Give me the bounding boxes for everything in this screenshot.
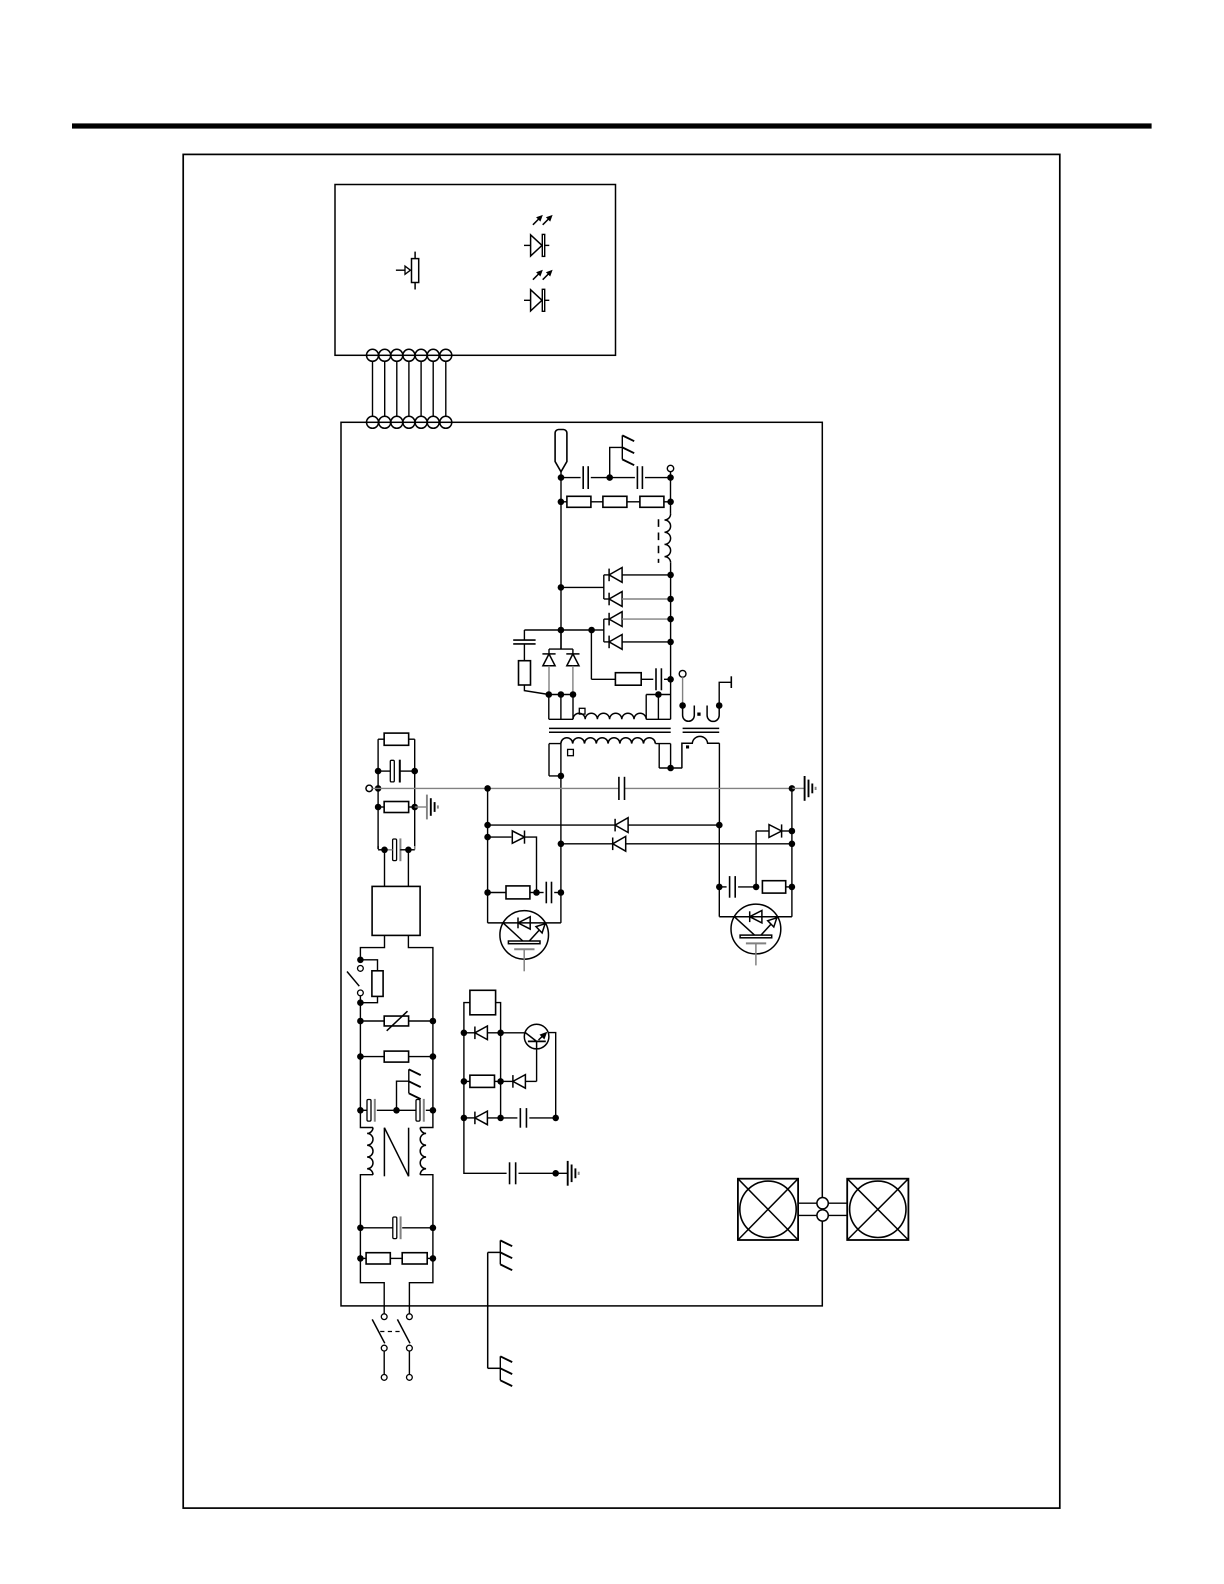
choke core lines — [383, 1128, 385, 1177]
junction T1 pri c — [570, 691, 577, 698]
wire D3 leads — [604, 618, 609, 620]
wire to choke left — [360, 1110, 373, 1127]
wire R4 leads — [360, 1056, 384, 1058]
breaker mechanical link (dashed) — [380, 1331, 401, 1333]
transformer T1 primary winding — [573, 713, 646, 719]
junction rail 892 — [484, 889, 491, 896]
wire cap row — [360, 1109, 367, 1111]
junction T1 sec right — [667, 765, 674, 772]
junction main line / left rail — [375, 785, 382, 792]
wire T2 right lead — [719, 682, 731, 705]
resistor R6 (bottom right) — [402, 1253, 427, 1264]
capacitor C6 — [582, 466, 584, 489]
wire left rail to MOV — [359, 996, 361, 1021]
capacitor C14 — [509, 1162, 511, 1184]
junction T1 sec left — [558, 773, 565, 780]
chassis ground (upper) — [499, 1240, 501, 1264]
junction main/earth — [789, 785, 796, 792]
junction R row right — [430, 1255, 437, 1262]
thermal switch contact top — [358, 966, 364, 972]
choke winding left — [367, 1128, 373, 1175]
terminal line sense — [679, 670, 686, 677]
chassis ground (lower) — [499, 1356, 501, 1380]
junction R2 left — [375, 804, 382, 811]
wire T2 sec down — [718, 743, 720, 825]
varistor MOV — [384, 1016, 408, 1026]
resistor R7 — [567, 496, 591, 507]
wire gate RC row 2 — [719, 886, 726, 888]
junction C2 left — [381, 847, 388, 854]
wire tie B down — [590, 630, 592, 679]
junction D10 right — [789, 828, 796, 835]
chassis ground (mid) — [408, 1069, 410, 1093]
resistor R14 (driver top) — [470, 990, 496, 1015]
wire rail 719 — [718, 825, 720, 917]
wire chassis bond — [487, 1252, 489, 1368]
polarity square T1 primary — [579, 708, 585, 714]
junction tie A — [558, 584, 565, 591]
diode D1 — [608, 569, 610, 582]
IGBT Q2 — [731, 904, 781, 954]
junction D1 right — [667, 572, 674, 579]
junction R12 right — [533, 889, 540, 896]
fan motor 2 — [847, 1179, 908, 1240]
junction C11 right — [558, 889, 565, 896]
choke winding right — [420, 1128, 426, 1175]
wire bracket feed — [560, 630, 562, 649]
wire 3R row — [561, 501, 567, 503]
capacitor C11 — [545, 882, 547, 904]
resistor R3 (bleeder) — [372, 971, 383, 997]
wire R14 left lead — [464, 1003, 470, 1033]
junction R4 right — [430, 1053, 437, 1060]
junction drv row3 mid — [497, 1115, 504, 1122]
control PC board box — [335, 185, 616, 356]
fan motor 1 — [738, 1179, 798, 1240]
terminal line output — [366, 785, 372, 791]
junction R2 right — [411, 804, 418, 811]
capacitor C4 — [416, 1100, 420, 1122]
wire T2 left lead — [682, 677, 684, 705]
wire C1 leads — [378, 770, 390, 772]
junction bus top — [667, 474, 674, 481]
junction drv row2 mid — [497, 1078, 504, 1085]
junction T1 pri b — [558, 691, 565, 698]
junction rail 825 — [484, 822, 491, 829]
wire D1-D2 tie — [603, 575, 605, 599]
wire gate rail left — [487, 788, 489, 923]
junction T1 pri a — [546, 691, 553, 698]
junction tie B — [588, 627, 595, 634]
wire D3-D4 tie — [603, 619, 605, 642]
diode D8 — [524, 831, 526, 844]
resistor R15 — [470, 1075, 495, 1087]
transformer T1 secondary winding — [561, 738, 655, 744]
junction T2 pri left — [679, 702, 686, 709]
junction rail 837 — [484, 834, 491, 841]
polarity mark T2 primary — [697, 713, 700, 716]
ribbon connector wires — [372, 361, 374, 416]
earth ground (driver) — [567, 1161, 569, 1186]
wire D6 lead — [572, 666, 574, 695]
diode D13 — [474, 1112, 476, 1125]
wire gate RC row — [488, 892, 506, 894]
junction C5 right — [430, 1225, 437, 1232]
junction R3 bottom — [357, 999, 364, 1006]
wire line 825 — [488, 824, 615, 826]
chassis ground (mid) link — [397, 1081, 409, 1110]
transformer T2 primary — [683, 706, 695, 722]
wire T1 sec right bracket — [655, 744, 682, 768]
capacitor C12 — [729, 876, 731, 898]
wire to breaker pole 1 — [360, 1258, 384, 1313]
junction T2 pri right — [716, 702, 723, 709]
LED 2 (control box) — [524, 299, 531, 301]
fan connector pin 1 — [817, 1198, 828, 1209]
wire snubber top — [523, 630, 525, 640]
capacitor C9 — [655, 668, 657, 690]
inductor L1 — [665, 514, 671, 563]
IGBT Q1 — [500, 911, 549, 960]
wire drv tie — [463, 1033, 465, 1118]
wire R2 to earth — [415, 806, 427, 808]
diode D12 — [512, 1075, 514, 1088]
junction D3 right — [667, 616, 674, 623]
junction C1 right — [411, 768, 418, 775]
capacitor C3 — [367, 1100, 371, 1122]
junction cap row left — [357, 1107, 364, 1114]
wire switch branch — [360, 960, 377, 971]
wire sensor to node — [560, 472, 562, 478]
wire R2 leads — [378, 806, 384, 808]
wire igbt2 chord — [719, 916, 792, 918]
breaker blade 1 — [372, 1319, 385, 1343]
junction D4 right — [667, 639, 674, 646]
junction cap row right — [430, 1107, 437, 1114]
wire main line — [372, 787, 619, 789]
wire right bus upper — [670, 478, 672, 514]
wire diode pair top bar — [549, 648, 573, 650]
outer border frame — [183, 154, 1060, 1508]
wire choke bottom left — [360, 1175, 373, 1228]
breaker contact 2a — [407, 1314, 413, 1320]
wire to breaker pole 2 — [409, 1258, 433, 1313]
wire snubber bottom — [524, 685, 548, 695]
resistor R12 — [506, 886, 530, 899]
wire MOV leads — [360, 1020, 384, 1022]
wire to choke right — [420, 1110, 433, 1127]
polarity mark T2 secondary — [686, 745, 689, 748]
switch blade — [347, 972, 359, 987]
diode D4 — [608, 636, 610, 649]
junction rail719 886 — [716, 884, 723, 891]
wire C2 to module — [384, 850, 386, 887]
resistor R5 (bottom left) — [366, 1253, 390, 1264]
junction C12 right — [753, 884, 760, 891]
wire D4 leads — [604, 641, 609, 643]
capacitor C2 (input) — [393, 839, 397, 861]
wire R1 leads — [378, 738, 384, 740]
diode D2 — [608, 593, 610, 606]
wire chassis link top — [610, 447, 623, 477]
breaker contact 2b — [407, 1345, 413, 1351]
terminal line input — [366, 785, 372, 791]
snubber resistor R10 — [519, 661, 531, 685]
power board outline — [341, 422, 822, 1306]
wire snubber mid — [523, 644, 525, 661]
breaker terminal 1 — [381, 1375, 387, 1381]
wire D10 leads — [756, 830, 769, 832]
junction line843 left — [558, 841, 565, 848]
wire terminal stub — [670, 472, 672, 478]
diode D6 (up) — [566, 653, 579, 655]
potentiometer R (control box) — [412, 259, 419, 283]
resistor R13 — [762, 881, 785, 893]
diode D5 (up) — [542, 653, 555, 655]
capacitor C13 — [519, 1108, 521, 1128]
thermal sensor — [555, 430, 567, 472]
connector receptacle circles (bottom row) — [367, 416, 379, 428]
wire drv row2 — [464, 1080, 470, 1082]
wire line 837 — [488, 836, 512, 838]
wire drv row3 — [464, 1117, 475, 1119]
junction drv row1 left — [461, 1030, 468, 1037]
junction main/igbt rail — [484, 785, 491, 792]
diode D11 — [474, 1027, 476, 1040]
junction line825 right — [716, 822, 723, 829]
junction C1 left — [375, 768, 382, 775]
resistor R8 — [603, 496, 627, 507]
chassis ground (top) — [621, 435, 623, 459]
resistor R11 — [615, 673, 641, 686]
wire D2 leads — [604, 598, 609, 600]
wire rail 791 — [791, 788, 793, 916]
junction drv row3 left — [461, 1115, 468, 1122]
earth ground (input filter) — [426, 795, 428, 820]
thermal switch contact bottom — [358, 990, 364, 996]
potentiometer wiper arrow — [396, 269, 405, 271]
wire T1 bracket left — [549, 695, 573, 720]
diode D3 — [608, 613, 610, 626]
junction C2 right — [405, 847, 412, 854]
wire C5 row — [360, 1227, 392, 1229]
page top rule — [72, 123, 1152, 128]
resistor R2 (input) — [384, 802, 409, 813]
junction C5 left — [357, 1225, 364, 1232]
wire fan links — [798, 1202, 817, 1204]
wire secondary bus — [560, 776, 562, 893]
wire RC row — [591, 678, 615, 680]
breaker contact 1b — [381, 1345, 387, 1351]
junction switch top — [357, 957, 364, 964]
wire rails MOV to R4 — [359, 1021, 361, 1057]
snubber capacitor C8 — [513, 639, 535, 641]
junction RC right — [667, 676, 674, 683]
transformer T2 core — [683, 727, 720, 729]
junction bus 630 — [558, 627, 565, 634]
polarity square T1 secondary — [568, 749, 574, 755]
wire node row 630 — [524, 629, 591, 631]
resistor R4 — [384, 1051, 408, 1062]
module block (rectifier) — [372, 886, 420, 935]
terminal line top — [667, 465, 673, 471]
junction R13 right — [789, 884, 796, 891]
junction drv row1 right — [497, 1030, 504, 1037]
junction line843 right — [789, 841, 796, 848]
choke core diagonal — [384, 1128, 408, 1177]
wire R5-R6 row — [360, 1257, 366, 1259]
wire choke bottom right — [420, 1175, 433, 1228]
wire left bus upper — [560, 478, 562, 649]
breaker blade 2 — [397, 1319, 410, 1343]
breaker contact 1a — [381, 1314, 387, 1320]
wire terminal row — [561, 477, 581, 479]
resistor R9 — [640, 496, 664, 507]
wire module right lead — [408, 935, 433, 1021]
transistor Q3 — [524, 1024, 549, 1049]
capacitor C5 (bottom) — [393, 1217, 397, 1239]
wire rails R4 to caps — [359, 1057, 361, 1111]
wire R3 bottom lead — [360, 996, 377, 1002]
junction drv row3 right — [552, 1115, 559, 1122]
wire T1 bracket right — [646, 695, 670, 720]
junction sensor node — [558, 474, 565, 481]
wire main earth stub — [792, 787, 805, 789]
wire drv bottom — [464, 1118, 568, 1173]
wire T1 sec left bracket — [549, 744, 561, 776]
wire right bus mid — [670, 563, 672, 695]
wire stub 756 — [755, 831, 757, 887]
wire D1 leads — [604, 574, 609, 576]
wire module left lead — [360, 935, 384, 956]
junction MOV left — [357, 1018, 364, 1025]
wire breaker tails — [383, 1351, 385, 1375]
earth ground (main line) — [804, 776, 806, 801]
wire line 843 — [561, 843, 613, 845]
junction 3R row left — [558, 499, 565, 506]
diode D7 — [614, 819, 616, 832]
junction chassis tap — [606, 474, 613, 481]
capacitor C10 (main line) — [618, 777, 620, 800]
wire drv row1 — [464, 1032, 475, 1034]
junction 3R row right — [667, 499, 674, 506]
capacitor C1 (input) — [390, 760, 394, 782]
junction cap row mid — [393, 1107, 400, 1114]
fan connector pin 2 — [817, 1210, 828, 1221]
wire C2 row — [377, 846, 379, 849]
wire Q3 collector — [536, 1049, 538, 1082]
junction T1 pri d — [655, 691, 662, 698]
transformer T1 core — [549, 727, 671, 729]
junction drv bottom — [552, 1170, 559, 1177]
diode D9 — [612, 838, 614, 851]
capacitor C7 — [636, 466, 638, 489]
wire Q3 right lead — [549, 1033, 556, 1118]
junction R row left — [357, 1255, 364, 1262]
junction drv row2 left — [461, 1078, 468, 1085]
junction MOV right — [430, 1018, 437, 1025]
wire D5 lead — [548, 666, 550, 695]
resistor R1 (input top) — [384, 733, 409, 745]
wire left rail upper — [377, 739, 379, 849]
wire igbt1 chord — [488, 922, 561, 924]
junction R4 left — [357, 1053, 364, 1060]
LED 1 (control box) — [524, 244, 531, 246]
wire R14 right lead — [496, 1003, 501, 1033]
wire right rail upper — [414, 739, 416, 849]
wire rails C5 to R row — [359, 1228, 361, 1259]
transformer T2 secondary — [682, 736, 720, 768]
junction D2 right — [667, 596, 674, 603]
inductor core (dashed) — [658, 519, 660, 563]
diode D10 — [781, 824, 783, 837]
connector plug circles (top row) — [367, 349, 379, 361]
breaker terminal 2 — [407, 1375, 413, 1381]
